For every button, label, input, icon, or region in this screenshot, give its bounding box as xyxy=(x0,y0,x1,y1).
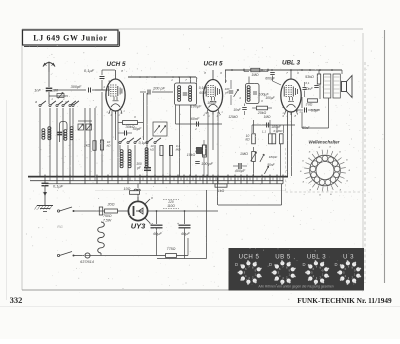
svg-text:1kΩ: 1kΩ xyxy=(84,144,90,148)
svg-text:1,1: 1,1 xyxy=(262,130,267,134)
svg-text:D: D xyxy=(269,262,272,267)
svg-text:LJ 649 GW Junior: LJ 649 GW Junior xyxy=(33,34,107,43)
svg-text:D: D xyxy=(334,262,337,267)
svg-text:Alle Röhren von unten gegen di: Alle Röhren von unten gegen die Fassung … xyxy=(257,285,333,289)
svg-text:UBL 3: UBL 3 xyxy=(282,60,301,67)
svg-text:0,5μF: 0,5μF xyxy=(311,109,320,113)
svg-text:332: 332 xyxy=(10,295,23,305)
svg-text:kΩ: kΩ xyxy=(245,138,250,142)
svg-text:100 pF: 100 pF xyxy=(201,162,214,166)
svg-text:UCH 5: UCH 5 xyxy=(204,61,223,68)
svg-text:100μF: 100μF xyxy=(191,105,202,109)
svg-text:7,5W: 7,5W xyxy=(103,219,112,223)
svg-text:750Ω: 750Ω xyxy=(103,214,112,218)
svg-text:50nF: 50nF xyxy=(302,126,310,130)
svg-text:Wellenschalter: Wellenschalter xyxy=(309,140,340,145)
svg-text:1kΩ: 1kΩ xyxy=(218,189,225,193)
svg-text:0,1MΩ: 0,1MΩ xyxy=(274,129,284,133)
svg-text:10kΩ: 10kΩ xyxy=(187,153,196,157)
svg-text:0,1: 0,1 xyxy=(306,81,310,85)
svg-text:53kΩ: 53kΩ xyxy=(305,75,314,79)
svg-text:UY3: UY3 xyxy=(131,222,146,231)
svg-text:637/614: 637/614 xyxy=(80,260,94,264)
svg-text:1nF: 1nF xyxy=(34,89,41,93)
svg-text:0,1μF: 0,1μF xyxy=(84,68,95,73)
svg-text:600pF: 600pF xyxy=(265,77,276,81)
svg-text:110Ω: 110Ω xyxy=(167,204,175,208)
svg-text:60nF: 60nF xyxy=(191,117,200,121)
svg-text:180pF: 180pF xyxy=(269,155,278,159)
svg-text:1MΩ: 1MΩ xyxy=(264,115,271,119)
svg-text:775Ω: 775Ω xyxy=(167,247,176,251)
svg-text:pF: pF xyxy=(224,91,229,95)
svg-text:3 kΩ: 3 kΩ xyxy=(306,103,313,107)
svg-text:UCH 5: UCH 5 xyxy=(239,253,260,260)
svg-text:100μF: 100μF xyxy=(265,96,275,100)
svg-text:0,1μF: 0,1μF xyxy=(53,184,64,189)
svg-text:180pF: 180pF xyxy=(271,125,282,129)
svg-text:UB 5: UB 5 xyxy=(275,253,291,260)
svg-text:1MΩ: 1MΩ xyxy=(251,73,259,77)
svg-text:50nF: 50nF xyxy=(267,163,275,167)
svg-text:20nF: 20nF xyxy=(303,87,313,91)
svg-text:D: D xyxy=(302,262,305,267)
svg-text:120kΩ: 120kΩ xyxy=(228,115,238,119)
svg-text:10nF: 10nF xyxy=(233,108,241,112)
svg-text:FUNK-TECHNIK Nr. 11/1949: FUNK-TECHNIK Nr. 11/1949 xyxy=(297,296,392,305)
svg-text:10Ω: 10Ω xyxy=(124,187,131,191)
svg-text:300: 300 xyxy=(52,89,58,93)
svg-text:200 pF: 200 pF xyxy=(152,87,166,91)
svg-text:UCH 5: UCH 5 xyxy=(107,61,126,68)
svg-text:20Ω: 20Ω xyxy=(106,203,114,207)
svg-text:D: D xyxy=(235,262,238,267)
svg-text:300pF: 300pF xyxy=(71,85,82,89)
svg-text:UBL 3: UBL 3 xyxy=(307,253,326,260)
svg-text:0,1μF: 0,1μF xyxy=(139,141,149,145)
svg-text:60μF: 60μF xyxy=(181,232,190,236)
svg-text:RG: RG xyxy=(57,225,63,229)
svg-text:MΩ: MΩ xyxy=(176,148,181,152)
svg-text:50pF: 50pF xyxy=(133,127,142,131)
svg-text:1MΩ: 1MΩ xyxy=(240,152,248,156)
svg-text:a: a xyxy=(35,100,37,104)
svg-text:U 3: U 3 xyxy=(343,253,354,260)
svg-text:400μF: 400μF xyxy=(235,169,246,173)
svg-text:100μF: 100μF xyxy=(207,101,218,105)
svg-text:60μF: 60μF xyxy=(153,232,162,236)
